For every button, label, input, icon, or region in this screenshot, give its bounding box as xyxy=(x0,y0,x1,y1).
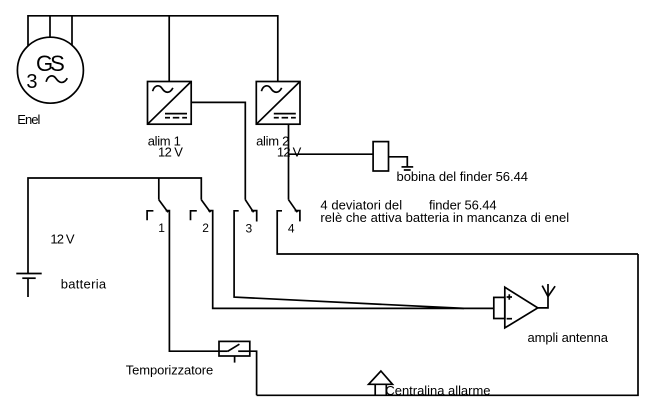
svg-text:12 V: 12 V xyxy=(50,232,75,247)
svg-text:relè che attiva batteria in ma: relè che attiva batteria in mancanza di … xyxy=(320,210,569,225)
svg-text:Centralina allarme: Centralina allarme xyxy=(385,383,490,398)
svg-text:12 V: 12 V xyxy=(277,144,302,159)
svg-text:1: 1 xyxy=(158,221,165,235)
svg-text:bobina del finder 56.44: bobina del finder 56.44 xyxy=(397,169,529,184)
svg-text:Enel: Enel xyxy=(17,112,40,127)
svg-text:2: 2 xyxy=(202,221,209,235)
svg-text:Temporizzatore: Temporizzatore xyxy=(126,362,214,377)
svg-text:ampli antenna: ampli antenna xyxy=(528,330,609,345)
svg-text:4: 4 xyxy=(288,221,295,235)
svg-text:GS: GS xyxy=(36,51,65,76)
svg-text:3: 3 xyxy=(246,221,253,235)
svg-text:batteria: batteria xyxy=(61,276,107,291)
svg-text:12 V: 12 V xyxy=(158,144,183,159)
svg-text:3: 3 xyxy=(26,71,37,93)
